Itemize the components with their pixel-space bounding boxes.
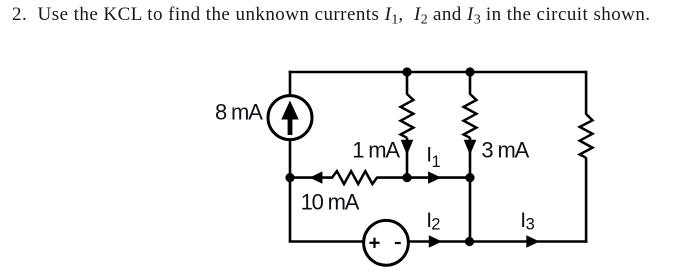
label I2 xyxy=(426,209,440,234)
svg-text:2: 2 xyxy=(431,216,440,234)
junction node middle B xyxy=(465,173,474,182)
wire middle horizontal left xyxy=(290,176,333,179)
resistor branch B xyxy=(464,94,477,138)
wire branch B lower xyxy=(469,138,472,242)
wire bottom right xyxy=(409,240,588,243)
current source arrow xyxy=(281,101,298,136)
arrow I3 right xyxy=(526,235,539,247)
junction node top B xyxy=(465,67,474,76)
wire top xyxy=(289,71,586,74)
voltage source minus sign xyxy=(395,242,401,244)
junction node bottom B xyxy=(465,237,474,246)
resistor branch A xyxy=(401,94,414,138)
svg-text:8 mA: 8 mA xyxy=(215,99,263,124)
svg-text:3 mA: 3 mA xyxy=(481,137,529,162)
current source 8 mA circle xyxy=(268,96,312,140)
label I1 xyxy=(426,144,440,171)
junction node middle left xyxy=(285,173,294,182)
label I3 xyxy=(520,209,534,234)
wire middle horizontal right xyxy=(376,176,470,179)
voltage source circle xyxy=(364,220,409,265)
wire left lower xyxy=(289,139,292,242)
wire right lower xyxy=(585,158,588,243)
arrow 1 mA down (branch A) xyxy=(401,140,414,155)
wire branch A upper xyxy=(406,72,409,95)
junction node top A xyxy=(402,67,411,76)
voltage source plus sign xyxy=(369,238,379,248)
svg-text:1: 1 xyxy=(432,153,441,171)
arrow I2 right xyxy=(429,235,442,247)
arrow 3 mA down (branch B) xyxy=(464,140,477,155)
resistor middle horizontal xyxy=(332,171,377,184)
svg-text:3: 3 xyxy=(526,216,535,234)
wire right upper xyxy=(585,71,588,115)
wire bottom left xyxy=(289,240,364,243)
wire branch B upper xyxy=(469,72,472,95)
svg-text:10 mA: 10 mA xyxy=(301,190,360,215)
title text xyxy=(12,5,651,24)
arrow 10 mA left xyxy=(310,171,323,183)
junction node middle A xyxy=(402,173,411,182)
wire branch A lower xyxy=(406,138,409,178)
wire left upper xyxy=(289,71,292,97)
resistor right xyxy=(580,114,593,158)
arrow I1 right xyxy=(428,171,441,183)
svg-text:1 mA: 1 mA xyxy=(352,137,400,162)
